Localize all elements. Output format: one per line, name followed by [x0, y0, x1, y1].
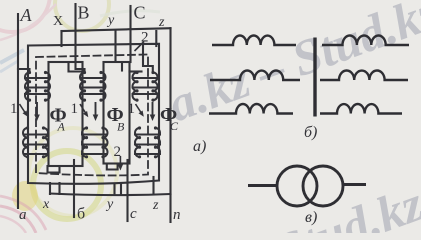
- secondary circle: [303, 166, 343, 206]
- svg-text:n: n: [173, 207, 181, 223]
- y lead stubs: [115, 184, 122, 194]
- svg-text:A: A: [20, 5, 33, 25]
- svg-text:а): а): [193, 138, 206, 155]
- core window left: [49, 62, 83, 166]
- core window right: [104, 62, 130, 164]
- svg-text:2: 2: [141, 30, 149, 46]
- svg-text:б): б): [304, 124, 317, 141]
- terminal Y lead: [114, 31, 116, 61]
- watermark lime ring center-left: [33, 151, 101, 219]
- lead exit notch under left window: [48, 166, 60, 173]
- svg-text:A: A: [57, 120, 66, 134]
- bottom neutral bus: [50, 194, 171, 196]
- primary coil phase 2: [210, 70, 300, 80]
- primary coil phase 3: [209, 104, 293, 114]
- watermark gray text diagonal upper: [161, 0, 421, 240]
- svg-text:1: 1: [128, 101, 136, 117]
- secondary coil phase 2: [320, 70, 408, 80]
- secondary coil phase 1: [322, 35, 409, 45]
- winding junction dots: [26, 71, 157, 158]
- svg-text:б: б: [77, 206, 85, 223]
- x lead stubs: [50, 183, 60, 194]
- lead exit notch under right window: [107, 164, 118, 170]
- b lead drop: [73, 160, 75, 217]
- winding B primary: [80, 73, 107, 101]
- z lead: [152, 177, 154, 194]
- watermark pink curves bottom-left: [0, 196, 46, 233]
- Z winding connection: [143, 46, 153, 73]
- text labels panel a: [10, 3, 206, 224]
- label 1 leader arrow (A): [20, 104, 28, 117]
- winding c secondary: [134, 128, 161, 157]
- limb C top tick: [130, 70, 142, 72]
- svg-text:B: B: [78, 3, 90, 23]
- svg-text:y: y: [106, 13, 115, 28]
- svg-text:C: C: [134, 3, 146, 23]
- winding b secondary: [81, 128, 108, 157]
- flux path dashed rectangle: [36, 55, 148, 176]
- svg-text:a: a: [19, 207, 27, 223]
- svg-text:в): в): [305, 209, 317, 226]
- core bar: [313, 38, 316, 117]
- X lead divider in window 1: [69, 63, 83, 72]
- label 2 mid leader arrow: [118, 156, 123, 171]
- core outer rectangle: [28, 44, 159, 184]
- c lead drop: [126, 160, 128, 221]
- terminal B lead: [76, 4, 85, 73]
- label 1 leader arrow (C): [136, 104, 144, 117]
- svg-text:B: B: [117, 120, 125, 134]
- svg-text:1: 1: [10, 101, 18, 117]
- primary coil phase 1: [212, 36, 296, 46]
- winding A primary: [24, 73, 50, 101]
- svg-text:z: z: [152, 198, 159, 213]
- winding a secondary: [23, 128, 48, 157]
- wire A to winding: [18, 69, 30, 73]
- neutral line n: [169, 28, 171, 222]
- terminal A lead: [17, 14, 19, 208]
- winding C primary: [132, 73, 159, 101]
- svg-text:2: 2: [114, 144, 122, 160]
- terminal Z lead: [155, 31, 157, 46]
- label 2 top leader: [135, 42, 145, 52]
- label 1 leader arrow (B): [80, 104, 88, 117]
- primary circle: [277, 166, 317, 206]
- secondary coil phase 3: [320, 104, 402, 114]
- svg-text:x: x: [42, 197, 50, 212]
- terminal C lead: [129, 6, 131, 62]
- left lead: [248, 184, 277, 187]
- top neutral bus: [62, 28, 171, 31]
- terminal X lead: [60, 31, 62, 46]
- flux arrow phase B: [93, 102, 99, 121]
- flux arrow phase C: [150, 102, 156, 121]
- right lead: [343, 183, 366, 186]
- flux arrow phase A: [34, 102, 40, 121]
- Y lead divider in window 2: [121, 63, 123, 71]
- watermark colored logo top-left: [0, 0, 160, 40]
- watermark yellow blob bottom-left: [12, 181, 38, 211]
- svg-text:C: C: [170, 119, 179, 133]
- svg-text:z: z: [158, 15, 165, 30]
- svg-text:y: y: [105, 197, 114, 212]
- svg-text:1: 1: [71, 101, 79, 117]
- svg-text:c: c: [130, 206, 137, 222]
- svg-text:X: X: [53, 14, 63, 29]
- watermark blue streaks left: [0, 50, 24, 72]
